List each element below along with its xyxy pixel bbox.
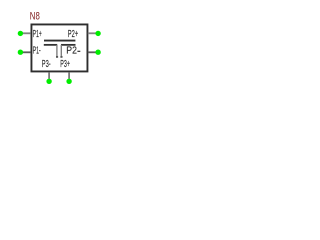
svg-text:N8: N8: [30, 11, 40, 23]
node P1+ terminal: [18, 31, 23, 36]
node P3- terminal: [46, 79, 51, 84]
node P2+ terminal: [95, 31, 100, 36]
svg-text:P1+: P1+: [33, 29, 42, 40]
pin label P2- minus dash: [77, 51, 80, 52]
winding symbol: left core leg: [56, 45, 58, 56]
pin P3- wire: [48, 72, 50, 79]
svg-text:P3+: P3+: [60, 59, 70, 70]
svg-text:P3-: P3-: [42, 59, 51, 70]
svg-text:P1-: P1-: [33, 45, 41, 56]
winding symbol: left secondary bar: [44, 44, 57, 46]
component body U1 (transformer block): [31, 24, 87, 71]
winding symbol: right secondary bar: [61, 44, 76, 46]
winding symbol: left leg foot: [56, 56, 58, 58]
pin P2+ wire: [88, 32, 97, 34]
winding symbol: right leg foot: [60, 56, 62, 58]
pin P2- wire: [88, 51, 97, 53]
winding symbol: right core leg: [60, 45, 62, 56]
node P1- terminal: [18, 50, 23, 55]
node P3+ terminal: [66, 79, 71, 84]
svg-text:P2: P2: [66, 46, 77, 57]
pin P1+ wire: [21, 32, 31, 34]
node P2- terminal: [95, 50, 100, 55]
pin P3+ wire: [68, 72, 70, 79]
pin P1- wire: [21, 51, 31, 53]
svg-text:P2+: P2+: [68, 29, 78, 40]
winding symbol: primary bar: [44, 40, 75, 42]
